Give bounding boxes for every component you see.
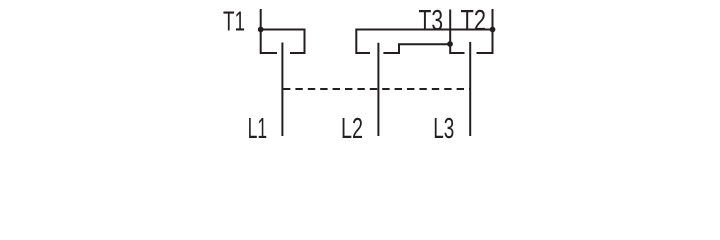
svg-text:T2: T2 (461, 5, 487, 37)
wire L2 (vertical lead to line L2) (377, 43, 379, 136)
wire L1 (vertical lead to line L1) (281, 43, 283, 137)
svg-text:T3: T3 (419, 5, 444, 37)
svg-text:T1: T1 (223, 5, 245, 36)
L2 cup right segment + second bus wire to T3 junction (383, 44, 450, 53)
junction dot at T3 on second bus (447, 41, 453, 47)
svg-text:L1: L1 (248, 113, 268, 144)
T1 link cup (top, right side, bottom-right segment) (261, 30, 305, 54)
terminal lead T1 (wire from T1 down, left side and bottom-left of T1 link cup) (261, 9, 277, 53)
terminal lead T3 (crosses top bus, left side and bottom-left of L3 cup) (450, 10, 464, 54)
top bus wire (left side of L2 cup, bottom-left segment, long top run to T2 junction) (356, 30, 492, 54)
svg-text:L3: L3 (433, 113, 454, 144)
wire L3 (vertical lead to line L3) (469, 42, 471, 136)
svg-text:L2: L2 (341, 113, 363, 144)
junction dot at T2 on top bus (490, 27, 496, 33)
terminal lead T2 (down through junction, right side and bottom-right of L3 cup) (477, 9, 493, 53)
dashed separator wire between L1 and L3 leads (283, 88, 470, 90)
junction dot at T1 (258, 27, 264, 33)
